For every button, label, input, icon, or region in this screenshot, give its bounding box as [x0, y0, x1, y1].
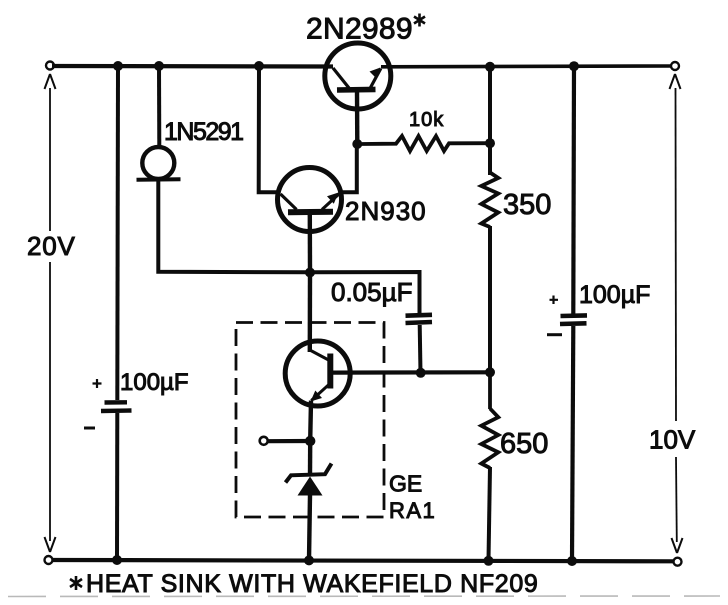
junction dot base node x310: [305, 268, 315, 278]
svg-text:650: 650: [500, 428, 548, 460]
terminal input + (top-left): [46, 62, 54, 70]
junction dot top rail x259: [254, 61, 264, 71]
wire R2 to mid node: [488, 226, 492, 372]
svg-text:GE: GE: [389, 471, 422, 497]
capacitor C3 plus sign: [550, 296, 559, 305]
resistor R2 350: [481, 173, 498, 228]
junction dot bottom x488: [484, 556, 494, 566]
wire C3 branch upper: [571, 66, 576, 314]
transistor Q3 (GE RA1 internal): [285, 341, 350, 406]
asterisk for Q1: [414, 14, 425, 27]
junction dot Q1 base node: [352, 139, 362, 149]
svg-text:10V: 10V: [649, 425, 696, 455]
junction dot top rail x159: [154, 61, 164, 71]
svg-text:0.05µF: 0.05µF: [331, 277, 412, 307]
svg-text:HEAT SINK WITH WAKEFIELD NF209: HEAT SINK WITH WAKEFIELD NF209: [86, 570, 538, 598]
wire C3 branch lower: [572, 326, 573, 561]
terminal input - (bottom-left): [45, 556, 53, 564]
wire R3 to bottom rail: [489, 467, 491, 560]
wire C1 branch upper: [115, 66, 120, 400]
wire Q2 emitter to Q1 base node: [340, 144, 357, 192]
wire C2 to Q3 base wire: [418, 325, 423, 373]
wire Q1 base lead: [355, 91, 360, 144]
svg-text:20V: 20V: [27, 231, 76, 261]
resistor R1 10k: [362, 136, 490, 151]
junction dot mid node x490: [485, 367, 495, 377]
transistor Q1 2N2989: [325, 43, 391, 109]
svg-text:100µF: 100µF: [579, 281, 650, 309]
capacitor C1 100uF plates: [105, 400, 128, 405]
wire emitter node to zener: [308, 441, 313, 475]
transistor Q2 2N930: [278, 168, 342, 232]
capacitor C2 0.05uF plates: [406, 312, 433, 318]
capacitor C3 minus sign: [547, 333, 562, 336]
svg-text:1N5291: 1N5291: [164, 118, 243, 146]
10V annotation arrow (up): [675, 88, 678, 421]
junction dot top rail x118: [113, 61, 123, 71]
wire zener to bottom rail: [309, 495, 310, 561]
svg-text:RA1: RA1: [389, 498, 436, 523]
wire stub to external terminal: [268, 439, 310, 443]
wire Q3 base to mid node: [332, 370, 490, 375]
20V annotation arrow (down): [49, 262, 51, 541]
wire base node to C2: [310, 272, 420, 314]
dashed box GE RA1: [236, 323, 384, 518]
svg-text:2N2989: 2N2989: [306, 13, 413, 46]
wire top rail left (20V side): [52, 64, 333, 69]
capacitor C1 minus sign: [84, 427, 95, 430]
junction dot bottom x117: [112, 555, 122, 565]
wire Q2 collector from rail: [259, 66, 279, 192]
wire bottom rail: [52, 560, 674, 561]
terminal output + (top-right): [671, 62, 679, 70]
junction dot C2 bottom: [416, 368, 426, 378]
wire Q3 emitter: [308, 401, 313, 442]
zener D2 cathode bar: [286, 464, 332, 483]
junction dot Q3 emitter node: [305, 436, 315, 446]
wire D1 to base node: [158, 180, 310, 272]
asterisk for note: [70, 576, 82, 590]
diode D1 1N5291 (current regulator): [142, 147, 174, 179]
svg-text:10k: 10k: [409, 109, 444, 131]
capacitor C3 100uF plates: [561, 313, 588, 318]
wire R2 branch top: [488, 67, 492, 175]
junction dot top rail x490: [485, 62, 495, 72]
svg-text:100µF: 100µF: [120, 369, 189, 396]
terminal output - (bottom-right): [674, 558, 682, 566]
20V annotation arrow (up): [49, 88, 51, 231]
junction dot top rail x574: [569, 61, 579, 71]
wire D1 branch top: [157, 66, 161, 147]
terminal (open circle in box): [260, 437, 268, 445]
junction dot bottom x309: [304, 555, 314, 565]
10V annotation arrow (down): [675, 457, 678, 542]
svg-text:2N930: 2N930: [345, 196, 427, 226]
svg-text:350: 350: [503, 189, 551, 221]
resistor R3 650: [481, 372, 498, 468]
junction dot R1 right: [485, 138, 495, 148]
scan artifact faint line: [8, 595, 720, 598]
wire C1 branch lower: [115, 413, 119, 560]
capacitor C1 plus sign: [93, 379, 102, 388]
wire Q3 collector: [308, 272, 313, 352]
wire top rail right (10V side): [381, 64, 671, 68]
zener D2 triangle: [298, 477, 323, 496]
junction dot bottom x572: [567, 556, 577, 566]
